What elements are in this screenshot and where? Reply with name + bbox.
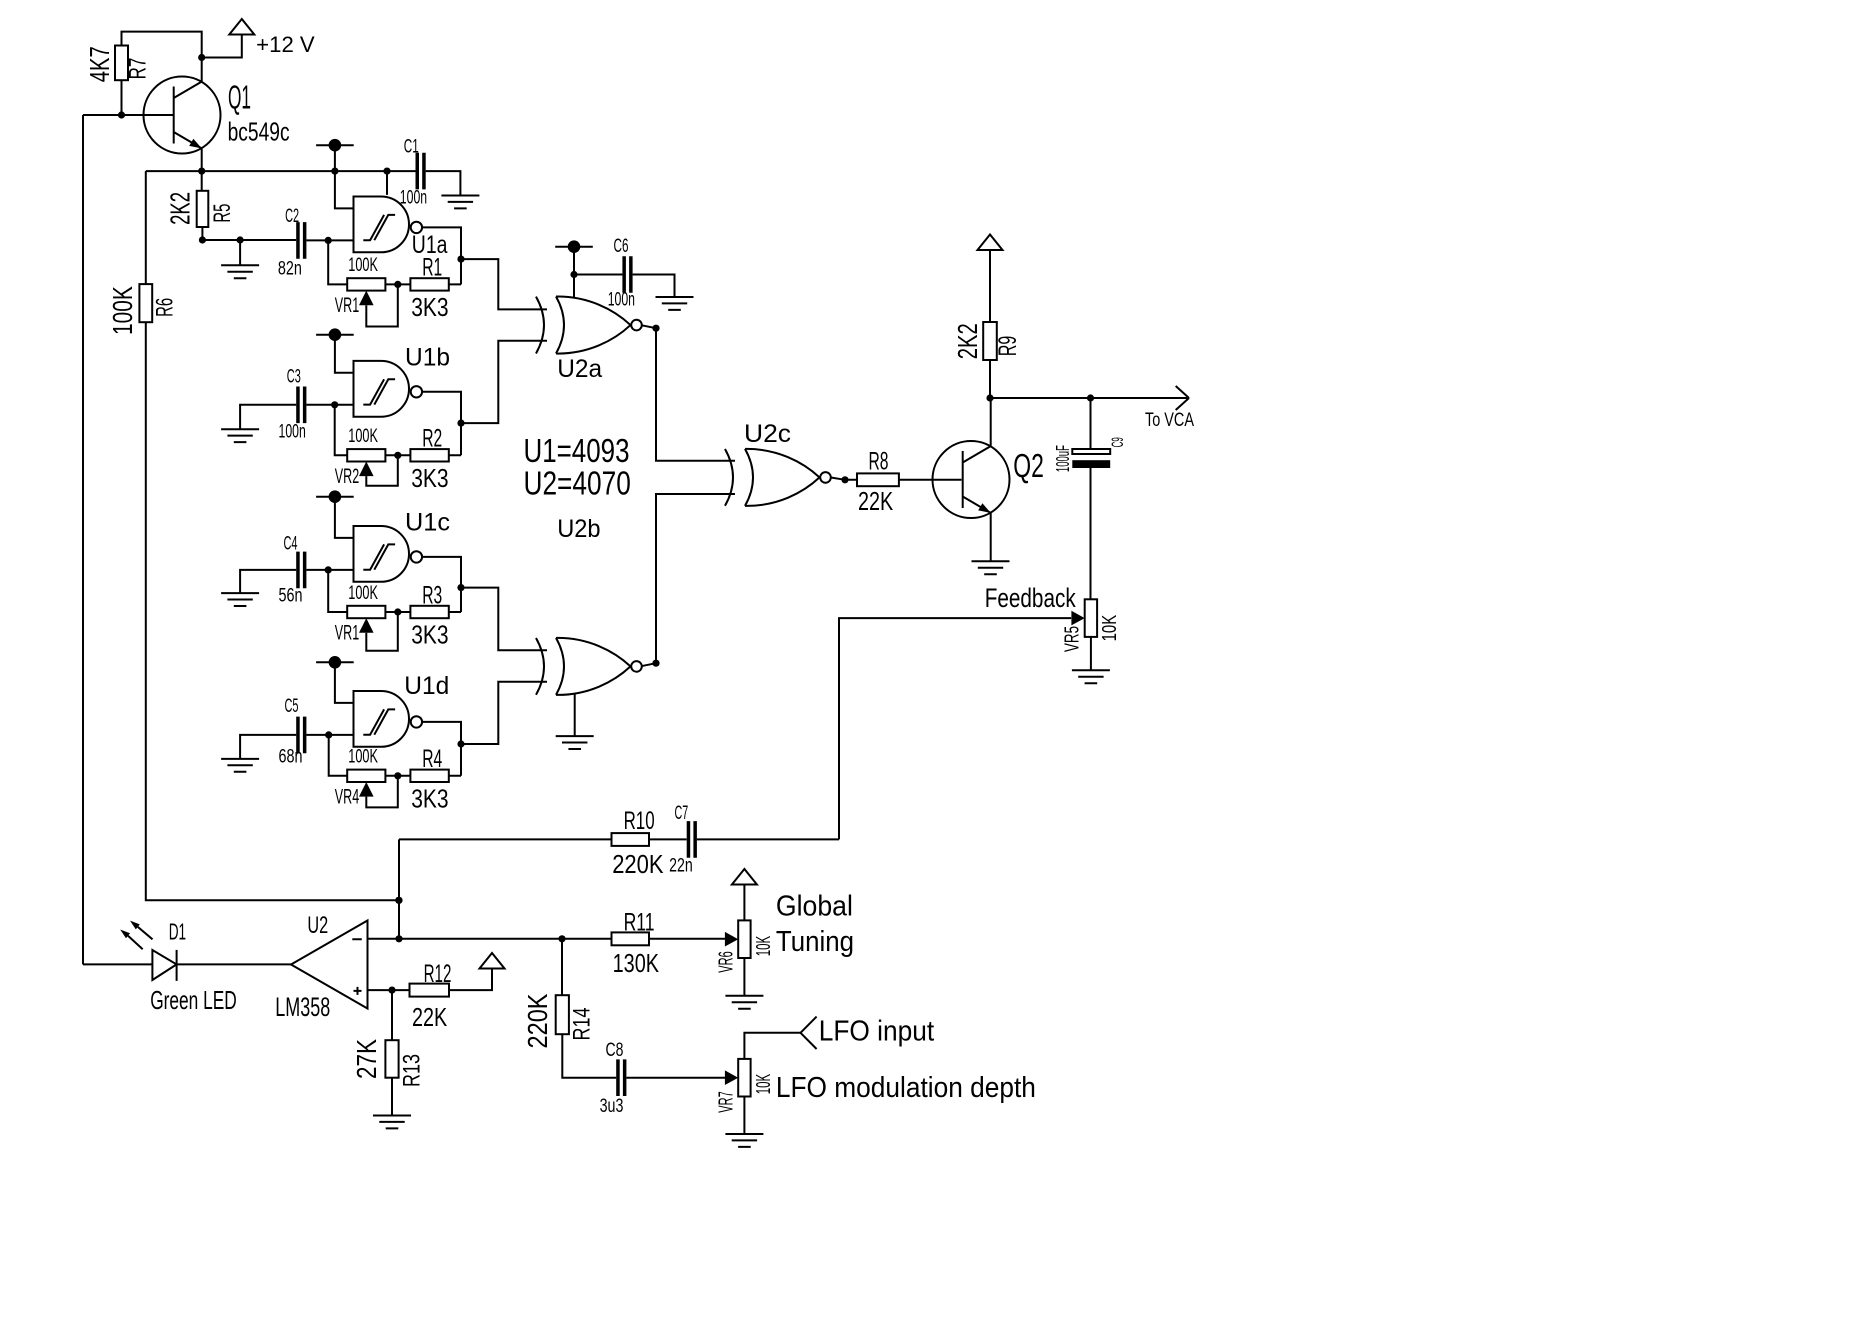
svg-text:Feedback: Feedback xyxy=(985,583,1076,613)
wire VR1 wiper loop xyxy=(366,284,398,326)
svg-text:VR1: VR1 xyxy=(335,622,359,645)
svg-text:R6: R6 xyxy=(151,298,178,317)
wire U2c output to R8 xyxy=(831,478,857,480)
svg-text:3K3: 3K3 xyxy=(411,463,448,493)
potentiometer VR6 global tuning xyxy=(725,920,751,958)
svg-text:VR2: VR2 xyxy=(335,465,359,488)
xor gate U2a xyxy=(536,297,642,354)
wire R10 to C7 xyxy=(649,838,687,840)
capacitor C9 polarized xyxy=(1072,449,1110,454)
ground at R13 xyxy=(373,1116,411,1129)
wire U1a output xyxy=(422,227,461,284)
potentiometer VR1 xyxy=(347,278,385,290)
potentiometer VR1 xyxy=(347,606,385,618)
resistor R13 xyxy=(385,1040,398,1078)
nand gate U1b xyxy=(354,361,423,417)
tap rail U1c xyxy=(316,490,354,503)
svg-text:LFO modulation depth: LFO modulation depth xyxy=(776,1072,1036,1104)
svg-text:R1: R1 xyxy=(422,254,442,282)
wire C8 to VR7 xyxy=(626,1077,725,1079)
svg-text:Global: Global xyxy=(776,891,853,923)
svg-text:LM358: LM358 xyxy=(275,992,330,1022)
wire R8 to Q2 base xyxy=(899,479,962,481)
svg-text:R14: R14 xyxy=(569,1008,596,1041)
wire down to op-amp minus xyxy=(398,839,400,938)
svg-text:LFO input: LFO input xyxy=(819,1016,935,1048)
wire U1c output xyxy=(422,557,461,612)
wire VR5 to ground xyxy=(1090,637,1092,670)
svg-text:R2: R2 xyxy=(422,425,442,453)
wire R14 to C8 xyxy=(562,1034,616,1078)
wire tap to U1b top input xyxy=(335,335,354,373)
wire U1b cap to ground xyxy=(240,405,296,429)
wire U1c cap to ground xyxy=(240,570,296,593)
wire VR7 to ground xyxy=(743,1097,745,1135)
xor gate U2b xyxy=(536,638,642,695)
ground at C6 xyxy=(656,297,694,310)
resistor R10 xyxy=(612,833,650,846)
wire U2b output to U2c xyxy=(641,494,735,666)
ground at Q2 xyxy=(972,561,1010,574)
svg-text:Green LED: Green LED xyxy=(150,985,237,1015)
wire U1c to xor input xyxy=(461,588,547,651)
resistor R12 xyxy=(410,984,450,997)
wire feedback xyxy=(839,618,1071,839)
resistor R3 xyxy=(410,606,448,618)
wire Q2 emitter to ground xyxy=(990,512,992,561)
svg-text:R12: R12 xyxy=(424,960,452,988)
wire U1b feedback left leg xyxy=(335,405,348,456)
tap rail U1b xyxy=(316,328,354,341)
svg-text:C2: C2 xyxy=(285,206,299,227)
resistor R6 xyxy=(139,284,152,322)
wire pot to R1 xyxy=(385,283,410,285)
svg-text:VR5: VR5 xyxy=(1062,626,1084,652)
svg-text:27K: 27K xyxy=(351,1039,382,1079)
wire Q1 base xyxy=(83,114,174,116)
wire U1d bottom input xyxy=(306,734,353,736)
svg-text:D1: D1 xyxy=(169,919,186,945)
ground at C2 node xyxy=(221,265,259,278)
svg-text:R5: R5 xyxy=(209,204,236,223)
potentiometer VR5 xyxy=(1071,599,1097,637)
wire output to C9 xyxy=(1090,398,1092,449)
wire VR6 to ground xyxy=(743,958,745,996)
led D1 xyxy=(83,963,152,965)
svg-text:Q2: Q2 xyxy=(1013,447,1044,484)
nand gate U1c xyxy=(354,526,423,582)
capacitor C4 xyxy=(296,552,306,589)
svg-text:4K7: 4K7 xyxy=(84,46,115,82)
tap rail U1d xyxy=(316,656,354,669)
svg-text:3K3: 3K3 xyxy=(411,783,448,813)
wire power to VR6 xyxy=(743,884,745,920)
potentiometer VR2 xyxy=(347,449,385,461)
wire U2b ground stem xyxy=(574,693,576,736)
ground at VR7 xyxy=(725,1134,763,1147)
wire tap to U1a top input xyxy=(335,145,354,208)
svg-text:R13: R13 xyxy=(399,1054,426,1087)
transistor Q1 xyxy=(144,77,221,154)
capacitor C1 xyxy=(416,153,426,190)
svg-text:10K: 10K xyxy=(1099,614,1121,641)
wire U1b to xor input xyxy=(461,341,547,423)
potentiometer VR7 lfo depth xyxy=(725,1059,751,1097)
resistor R4 xyxy=(410,770,448,782)
svg-text:10K: 10K xyxy=(753,936,775,957)
resistor R14 xyxy=(556,995,569,1034)
wire plus node to R13 xyxy=(391,990,393,1040)
svg-text:100K: 100K xyxy=(348,583,378,604)
lfo input connector xyxy=(801,1017,817,1049)
svg-text:U1d: U1d xyxy=(404,672,449,700)
svg-text:To VCA: To VCA xyxy=(1145,410,1194,431)
transistor Q2 xyxy=(933,441,1010,518)
power arrow R12 xyxy=(480,953,505,969)
svg-text:R7: R7 xyxy=(125,58,152,80)
wire VR1 wiper loop xyxy=(366,612,398,651)
svg-text:100K: 100K xyxy=(348,255,378,276)
ground at C5 xyxy=(221,759,259,772)
wire U1d feedback left leg xyxy=(329,735,348,776)
svg-text:C3: C3 xyxy=(287,367,301,388)
wire C2 node to ground xyxy=(239,240,241,265)
svg-text:3u3: 3u3 xyxy=(600,1096,624,1117)
svg-text:220K: 220K xyxy=(612,849,664,879)
svg-text:R3: R3 xyxy=(422,581,442,609)
svg-text:R11: R11 xyxy=(624,909,655,937)
svg-text:22K: 22K xyxy=(858,486,894,516)
resistor R9 xyxy=(983,322,997,360)
capacitor C2 xyxy=(296,222,306,259)
wire C6 to ground xyxy=(633,275,675,298)
resistor R2 xyxy=(410,449,448,461)
svg-text:R4: R4 xyxy=(422,745,442,773)
wire to C6 xyxy=(574,274,622,276)
svg-text:C9: C9 xyxy=(1108,437,1127,447)
svg-text:56n: 56n xyxy=(279,585,303,606)
wire U1a feedback left leg xyxy=(328,240,347,284)
svg-text:100K: 100K xyxy=(107,286,138,335)
svg-text:VR7: VR7 xyxy=(715,1091,737,1112)
svg-text:22n: 22n xyxy=(669,856,693,877)
svg-text:C8: C8 xyxy=(606,1040,624,1061)
wire U1c feedback left leg xyxy=(328,570,347,612)
wire R14 top xyxy=(561,939,563,995)
capacitor C6 xyxy=(622,256,632,293)
wire pot to R3 xyxy=(385,611,410,613)
ground at U2b xyxy=(556,736,594,749)
svg-text:VR1: VR1 xyxy=(335,294,359,317)
capacitor C7 xyxy=(687,821,697,858)
svg-text:100K: 100K xyxy=(348,747,378,768)
svg-text:C5: C5 xyxy=(285,696,299,717)
wire R11 to VR6 xyxy=(649,938,725,940)
wire tap to U1d top input xyxy=(335,662,354,703)
svg-text:Tuning: Tuning xyxy=(776,926,854,958)
svg-text:U2a: U2a xyxy=(557,355,602,383)
wire Q1 emitter to R5 xyxy=(201,148,203,191)
svg-text:220K: 220K xyxy=(522,993,553,1048)
wire gate-top stub U1a xyxy=(386,171,388,195)
resistor R7 xyxy=(115,46,128,81)
wire pot to R2 xyxy=(385,454,410,456)
wire U1b bottom input xyxy=(306,404,353,406)
wire lfo input to VR7 xyxy=(744,1033,800,1059)
svg-text:U2c: U2c xyxy=(744,420,791,448)
svg-text:100n: 100n xyxy=(608,290,635,311)
svg-text:R8: R8 xyxy=(869,448,889,476)
svg-text:U2b: U2b xyxy=(557,515,600,543)
wire R7 to base node xyxy=(121,80,123,115)
wire emitter rail to C1 xyxy=(146,170,416,172)
tap rail U1a xyxy=(316,139,354,152)
svg-text:82n: 82n xyxy=(278,258,302,279)
svg-text:VR6: VR6 xyxy=(715,951,737,972)
wire op-amp plus input xyxy=(368,989,410,991)
wire tap to U1c top input xyxy=(335,497,354,538)
svg-text:VR4: VR4 xyxy=(335,785,360,808)
resistor R1 xyxy=(410,278,448,290)
svg-text:100uF: 100uF xyxy=(1053,445,1073,472)
led arrows xyxy=(128,927,153,949)
wire R5 to C2 node xyxy=(202,227,296,240)
svg-text:bc549c: bc549c xyxy=(228,116,290,146)
ground at C3 xyxy=(221,429,259,442)
nand gate U1a xyxy=(354,197,423,253)
resistor R5 xyxy=(197,191,209,227)
wire U1d cap to ground xyxy=(240,735,296,759)
svg-text:22K: 22K xyxy=(412,1002,448,1032)
wire U1a bottom input xyxy=(306,239,353,241)
svg-text:Q1: Q1 xyxy=(228,79,251,116)
wire U1d to xor input xyxy=(461,682,547,744)
svg-text:C4: C4 xyxy=(284,534,298,555)
wire R7 top to Q1 collector rail xyxy=(122,32,202,82)
svg-text:C7: C7 xyxy=(675,803,689,824)
wire left rail down to LED xyxy=(82,115,84,964)
wire LED to op-amp output xyxy=(177,963,291,965)
wire tap to U2a top xyxy=(573,247,575,298)
resistor R11 xyxy=(612,932,650,945)
wire U2a output to U2c xyxy=(641,325,735,461)
svg-text:100n: 100n xyxy=(400,188,427,209)
svg-text:+12 V: +12 V xyxy=(256,32,315,57)
svg-text:R10: R10 xyxy=(624,807,655,835)
wire C7 to feedback corner xyxy=(697,838,839,840)
potentiometer VR4 xyxy=(347,770,385,782)
power arrow VR6 xyxy=(732,869,757,885)
op-amp U2 xyxy=(291,921,368,1009)
svg-text:10K: 10K xyxy=(753,1073,775,1094)
wire output to VCA xyxy=(990,386,1189,410)
ground at VR6 xyxy=(725,996,763,1009)
power arrow R9 xyxy=(978,235,1003,251)
wire R6 to op-amp node xyxy=(146,322,399,900)
svg-text:3K3: 3K3 xyxy=(411,620,448,650)
wire R9 to output node xyxy=(989,360,991,398)
ground at C1 xyxy=(441,196,479,209)
svg-text:C1: C1 xyxy=(404,137,419,158)
nand gate U1d xyxy=(354,691,423,747)
wire U1b output xyxy=(422,392,461,456)
wire R13 to ground xyxy=(391,1078,393,1116)
wire C9 to VR5 xyxy=(1090,468,1092,600)
svg-text:U2: U2 xyxy=(307,912,328,939)
capacitor C5 xyxy=(296,717,306,754)
svg-text:2K2: 2K2 xyxy=(164,192,195,225)
svg-text:2K2: 2K2 xyxy=(952,323,983,359)
wire VR4 wiper loop xyxy=(366,776,398,808)
wire power to R9 xyxy=(989,250,991,323)
tap rail U2a power xyxy=(555,240,593,253)
svg-text:3K3: 3K3 xyxy=(411,292,448,322)
xor gate U2c xyxy=(725,449,831,506)
svg-text:U2=4070: U2=4070 xyxy=(524,465,631,502)
capacitor C8 xyxy=(616,1059,626,1096)
wire U1d output xyxy=(422,722,461,776)
svg-text:U1b: U1b xyxy=(405,344,450,372)
wire R12 to power arrow xyxy=(449,968,492,990)
wire U1a to xor input xyxy=(461,259,547,309)
svg-text:68n: 68n xyxy=(279,747,303,768)
wire pot to R4 xyxy=(385,775,410,777)
svg-text:R9: R9 xyxy=(994,336,1022,356)
svg-text:C6: C6 xyxy=(614,236,629,257)
capacitor C3 xyxy=(296,387,306,424)
wire C1 to ground xyxy=(426,171,461,195)
resistor R8 xyxy=(857,473,899,486)
wire Q2 collector xyxy=(990,398,992,447)
wire VR2 wiper loop xyxy=(366,455,398,486)
svg-text:100n: 100n xyxy=(279,421,306,442)
wire rail to R6 xyxy=(145,171,147,284)
wire op-amp minus input row xyxy=(368,938,612,940)
svg-text:U1c: U1c xyxy=(405,509,450,537)
svg-text:100K: 100K xyxy=(348,426,378,447)
power +12V symbol xyxy=(229,19,254,35)
svg-text:130K: 130K xyxy=(613,948,660,978)
ground at C4 xyxy=(221,593,259,606)
ground at VR5 xyxy=(1072,670,1110,683)
wire U1c bottom input xyxy=(306,569,353,571)
wire R10 line left xyxy=(399,838,612,840)
